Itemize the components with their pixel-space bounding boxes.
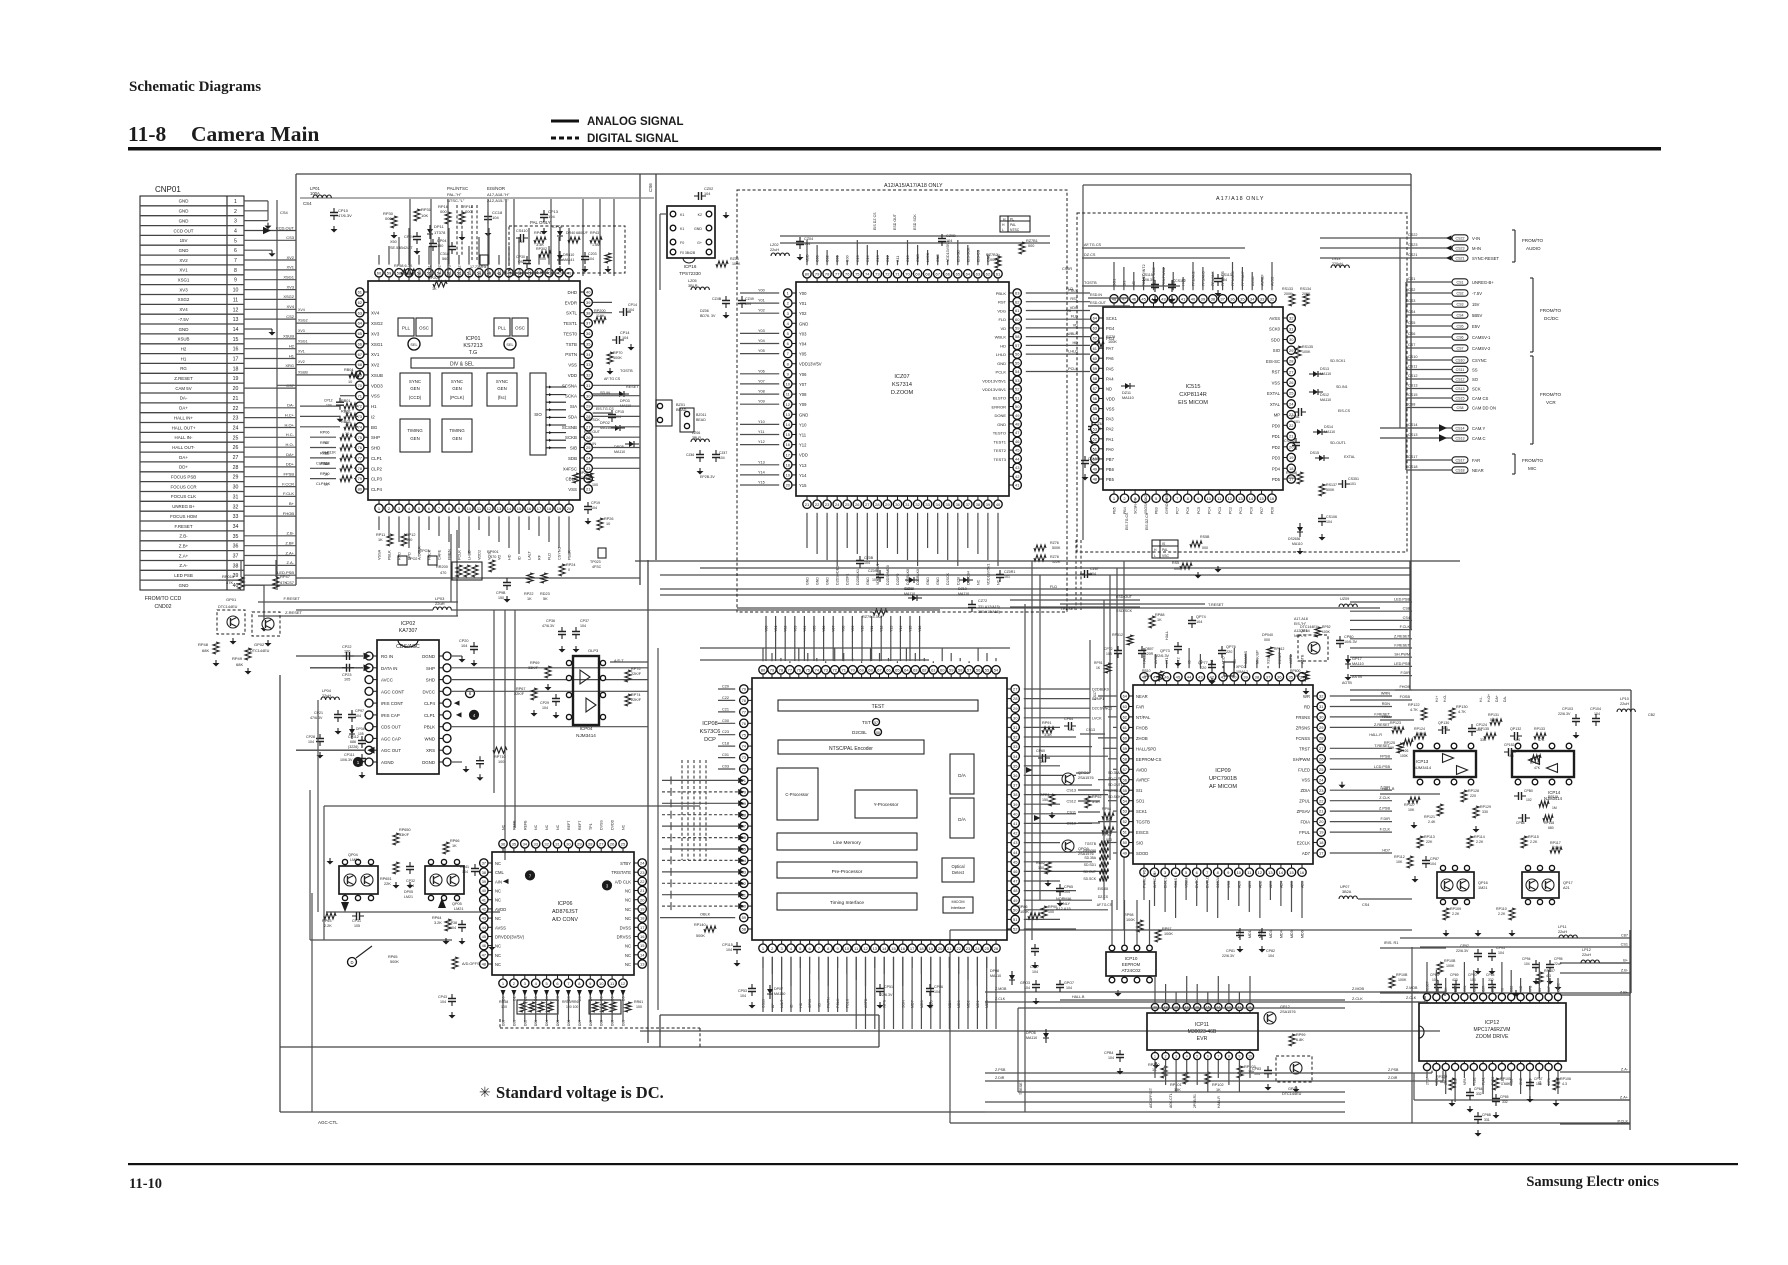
pin ICP12 bottom xyxy=(1545,1063,1552,1070)
svg-text:104: 104 xyxy=(1326,520,1332,524)
svg-text:SCSNA: SCSNA xyxy=(562,383,577,388)
wire edge stub Z.A- xyxy=(1560,1071,1630,1073)
transistor QP09 2SA1576 xyxy=(1062,840,1074,852)
capacitor CS105 104 xyxy=(1084,456,1086,468)
svg-text:104: 104 xyxy=(548,214,555,219)
capacitor CP41 104 xyxy=(474,864,476,876)
pin ICP12 top xyxy=(1517,993,1524,1000)
svg-text:GEN: GEN xyxy=(497,386,507,391)
svg-text:17.73MHz: 17.73MHz xyxy=(470,265,487,269)
diode DS15 MA110 xyxy=(1319,455,1324,461)
svg-text:CS21: CS21 xyxy=(1456,257,1465,261)
svg-text:19: 19 xyxy=(1319,830,1324,835)
svg-text:104: 104 xyxy=(542,706,548,710)
svg-text:50: 50 xyxy=(1123,840,1128,845)
resistor RP49 68K xyxy=(245,648,251,660)
svg-text:QP130: QP130 xyxy=(1438,721,1449,725)
svg-text:15: 15 xyxy=(233,337,239,343)
svg-text:21: 21 xyxy=(233,396,239,402)
svg-text:65: 65 xyxy=(358,331,363,336)
svg-text:75: 75 xyxy=(855,271,860,276)
wire ICP11 top pin up xyxy=(1175,992,1177,1003)
wire ICP06 data D1 down xyxy=(513,992,515,1022)
wire ICP08 bottom pin long xyxy=(874,957,876,1029)
resistor RP105 68K xyxy=(1493,1078,1499,1090)
svg-text:100K: 100K xyxy=(1126,918,1135,922)
svg-text:LM21: LM21 xyxy=(404,895,413,899)
svg-text:PB5: PB5 xyxy=(1106,477,1115,482)
svg-text:FOCUS PSB: FOCUS PSB xyxy=(171,475,196,480)
svg-text:SIA: SIA xyxy=(570,404,577,409)
svg-text:29: 29 xyxy=(586,404,591,409)
svg-text:SIO: SIO xyxy=(534,412,542,417)
svg-text:61: 61 xyxy=(358,290,363,295)
wire ICP08 bottom pin down xyxy=(846,957,848,974)
svg-text:FHOB: FHOB xyxy=(1399,685,1410,689)
wire ICP09 right WRN xyxy=(1330,695,1392,697)
wire ICP08 top pin up xyxy=(888,658,890,661)
wire olp3 vertical 1 xyxy=(493,610,495,793)
svg-text:PRST: PRST xyxy=(418,267,422,278)
svg-text:RP102: RP102 xyxy=(1212,1083,1224,1087)
resistor RP134 47K xyxy=(1531,755,1541,761)
capacitor CZ096 101 xyxy=(879,570,881,582)
svg-text:40: 40 xyxy=(1232,674,1237,679)
svg-text:D2DSHMD0: D2DSHMD0 xyxy=(886,565,890,585)
capacitor CZ64 104 xyxy=(1091,422,1093,434)
svg-text:12: 12 xyxy=(233,307,239,313)
svg-text:D: D xyxy=(350,960,353,965)
svg-text:GND: GND xyxy=(997,422,1006,427)
svg-text:GEN: GEN xyxy=(410,386,420,391)
svg-text:ANALOG SIGNAL: ANALOG SIGNAL xyxy=(587,116,683,128)
svg-text:59: 59 xyxy=(742,915,747,920)
wire HALL-R left list xyxy=(1078,789,1100,791)
svg-text:DR410: DR410 xyxy=(563,253,574,257)
resistor RS135 100K xyxy=(1295,346,1301,358)
svg-text:TPS72330: TPS72330 xyxy=(679,271,701,276)
svg-text:NTSC/PAL Encoder: NTSC/PAL Encoder xyxy=(829,746,873,752)
wire ICP08 top pin up xyxy=(923,658,925,661)
capacitor CP60b 103 xyxy=(1473,980,1475,992)
svg-text:16: 16 xyxy=(1300,870,1305,875)
svg-text:12: 12 xyxy=(487,506,492,511)
svg-text:QP76: QP76 xyxy=(1226,645,1236,649)
svg-text:CAM.Y: CAM.Y xyxy=(1472,426,1485,431)
wire ICZ07 top pin up xyxy=(917,245,919,265)
svg-text:EIS-SCK: EIS-SCK xyxy=(966,247,970,262)
wire ICZ07 bottom pin down xyxy=(977,513,979,554)
svg-text:RS5B: RS5B xyxy=(1200,535,1210,539)
svg-text:Detect: Detect xyxy=(952,870,965,875)
svg-text:A17.A18: A17.A18 xyxy=(1294,617,1308,621)
wire ICP02 pin DGND xyxy=(439,655,443,657)
svg-text:XPO2: XPO2 xyxy=(1236,665,1246,669)
svg-text:ICP12: ICP12 xyxy=(1485,1020,1500,1026)
wire ICP02 pin WND xyxy=(439,737,443,739)
svg-text:A/D CONV: A/D CONV xyxy=(552,917,578,923)
svg-text:18: 18 xyxy=(233,366,239,372)
wire ICP08 right stub xyxy=(1024,736,1076,738)
pin ICP11 bottom xyxy=(1194,1052,1201,1059)
svg-text:104: 104 xyxy=(1024,986,1030,990)
svg-text:35: 35 xyxy=(586,341,591,346)
svg-text:5: 5 xyxy=(1196,1055,1198,1059)
svg-text:39: 39 xyxy=(1243,674,1248,679)
svg-text:Z.B-: Z.B- xyxy=(1621,969,1629,973)
wire ICP01 bottom pin down xyxy=(438,516,440,536)
svg-text:D2CSVNC1: D2CSVNC1 xyxy=(1092,707,1112,711)
wire dcdc CS1 xyxy=(1406,281,1452,283)
svg-text:CDS OUT: CDS OUT xyxy=(381,725,401,730)
wire ICP08 bottom pin down xyxy=(920,957,922,974)
svg-text:TEST1: TEST1 xyxy=(563,321,577,326)
svg-text:CLP4: CLP4 xyxy=(371,487,383,492)
svg-text:TEST3: TEST3 xyxy=(994,457,1007,462)
svg-text:104: 104 xyxy=(934,990,940,994)
svg-text:GEN: GEN xyxy=(452,386,462,391)
resistor RP115 2.2K xyxy=(1521,836,1527,848)
svg-text:PA3: PA3 xyxy=(1106,417,1114,422)
svg-text:27: 27 xyxy=(586,424,591,429)
svg-text:RP117: RP117 xyxy=(1550,841,1561,845)
svg-text:C00: C00 xyxy=(722,719,729,723)
inductor LP03 22uH xyxy=(433,607,451,610)
svg-text:RP110: RP110 xyxy=(1496,907,1507,911)
svg-text:TPO2: TPO2 xyxy=(408,557,417,561)
svg-text:NC: NC xyxy=(495,916,501,921)
svg-text:RP129: RP129 xyxy=(1480,805,1491,809)
svg-text:WND: WND xyxy=(425,736,436,741)
svg-text:26: 26 xyxy=(610,841,615,846)
svg-text:30: 30 xyxy=(233,485,239,491)
svg-text:PBLK: PBLK xyxy=(388,550,392,560)
svg-text:SCKB: SCKB xyxy=(565,435,577,440)
svg-text:43: 43 xyxy=(1161,296,1166,301)
capacitor C318 560 xyxy=(451,242,453,254)
wire ICP08 bottom pin long xyxy=(986,957,988,1029)
svg-text:CS13: CS13 xyxy=(1408,384,1418,388)
svg-text:CS13: CS13 xyxy=(1456,437,1465,441)
svg-text:16: 16 xyxy=(640,934,645,939)
svg-text:NC: NC xyxy=(502,824,506,830)
svg-text:H1: H1 xyxy=(371,404,377,409)
wire CNP01 pin 31 net F.CLK xyxy=(244,495,296,497)
svg-text:27: 27 xyxy=(233,455,239,461)
wire ICZ07 top pin up xyxy=(876,250,878,265)
resistor RP86 100K xyxy=(1028,913,1040,919)
resistor RP63 2.2K xyxy=(324,913,336,919)
svg-text:DPO6: DPO6 xyxy=(1026,1031,1036,1035)
svg-text:103: 103 xyxy=(1106,652,1112,656)
op-amp ICP11 M30023-46B EVR body xyxy=(1147,1013,1258,1050)
svg-text:PC7: PC7 xyxy=(1176,507,1180,514)
svg-text:45: 45 xyxy=(1015,448,1020,453)
svg-text:24: 24 xyxy=(1289,402,1294,407)
svg-text:Y09: Y09 xyxy=(851,626,855,632)
wire ICP08 left C03 xyxy=(718,768,735,770)
wire ICP06 data D7 down xyxy=(578,992,580,1022)
svg-text:3.3K: 3.3K xyxy=(1044,733,1052,737)
svg-text:LALT: LALT xyxy=(528,551,532,560)
svg-text:RP07: RP07 xyxy=(320,441,330,445)
svg-text:A/D.OFFSET: A/D.OFFSET xyxy=(1149,1088,1153,1108)
ground rp70 xyxy=(630,344,632,347)
svg-text:SYNC: SYNC xyxy=(451,379,463,384)
svg-text:37: 37 xyxy=(482,861,487,866)
svg-text:3: 3 xyxy=(234,219,237,225)
arrow ICP08 left input xyxy=(738,869,744,875)
svg-text:19: 19 xyxy=(929,946,934,951)
wire ICP01 left input XV1 xyxy=(296,353,355,355)
wire vertical x660 bottom xyxy=(659,1015,661,1047)
svg-text:CP97: CP97 xyxy=(355,709,364,713)
svg-text:34: 34 xyxy=(1250,296,1255,301)
svg-text:Y09: Y09 xyxy=(758,400,765,404)
svg-text:SH.PWM: SH.PWM xyxy=(1394,653,1410,657)
pin ICP12 bottom xyxy=(1470,1063,1477,1070)
svg-text:40: 40 xyxy=(996,502,1001,507)
wire ICP06 data D8 down xyxy=(589,992,591,1022)
svg-text:26: 26 xyxy=(233,445,239,451)
svg-text:32: 32 xyxy=(233,504,239,510)
svg-text:EVR: EVR xyxy=(1197,1036,1208,1042)
svg-text:SD.SD1: SD.SD1 xyxy=(1084,863,1096,867)
svg-text:PC5: PC5 xyxy=(1197,507,1201,514)
wire ICP01 top pin up xyxy=(488,228,490,265)
resistor RP200 116K xyxy=(594,317,606,323)
svg-text:36: 36 xyxy=(233,544,239,550)
svg-text:XSG2: XSG2 xyxy=(283,294,294,299)
wire ICP02 pin PBLK xyxy=(439,726,443,728)
svg-text:19: 19 xyxy=(640,907,645,912)
svg-text:CP12: CP12 xyxy=(324,399,333,403)
svg-text:TEST: TEST xyxy=(872,704,885,710)
svg-text:D00: D00 xyxy=(611,1020,615,1026)
svg-text:(CCD): (CCD) xyxy=(409,395,422,400)
svg-text:H.C-: H.C- xyxy=(286,432,295,437)
svg-text:CLP1: CLP1 xyxy=(424,713,436,718)
svg-text:EIS.DZ.CS: EIS.DZ.CS xyxy=(1145,512,1149,530)
wire ICP01 top pin up xyxy=(448,228,450,265)
wire IC515 ESD.OUT xyxy=(1088,305,1130,307)
resistor RP123 5.6K xyxy=(1392,727,1404,733)
svg-text:RZ76: RZ76 xyxy=(1050,541,1059,545)
svg-text:100: 100 xyxy=(636,1005,642,1009)
svg-text:CS2: CS2 xyxy=(1457,292,1464,296)
svg-text:AVREF: AVREF xyxy=(1136,778,1150,783)
svg-text:1K: 1K xyxy=(432,287,437,291)
svg-text:DC/DC: DC/DC xyxy=(1544,316,1559,321)
svg-text:Y09: Y09 xyxy=(799,402,807,407)
svg-text:33: 33 xyxy=(233,514,239,520)
diode DP07 MA110 xyxy=(767,989,773,994)
inductor LP01 100A xyxy=(313,195,331,198)
svg-text:58: 58 xyxy=(1123,756,1128,761)
svg-text:HALL IN-: HALL IN- xyxy=(175,435,193,440)
svg-text:NC: NC xyxy=(625,962,631,967)
svg-text:RS5: RS5 xyxy=(1172,561,1179,565)
svg-text:CS4: CS4 xyxy=(1362,903,1369,907)
svg-text:64: 64 xyxy=(966,271,971,276)
resistor RZ78 122K xyxy=(1034,555,1046,561)
wire ICP01 bottom pin down xyxy=(428,516,430,530)
ball 4 clp1 xyxy=(470,710,479,719)
wire ICP01 top pin up xyxy=(528,228,530,265)
resistor RP121 2.4K xyxy=(1437,804,1443,816)
wire top bus horizontal y561 xyxy=(635,560,1460,562)
connector CNP01 body xyxy=(140,196,244,590)
wire ICP02 pin DGND xyxy=(439,761,443,763)
svg-text:RP651: RP651 xyxy=(380,877,392,881)
svg-text:VDD: VDD xyxy=(568,373,577,378)
svg-text:56: 56 xyxy=(976,667,981,672)
svg-text:RZ7B2: RZ7B2 xyxy=(986,253,998,257)
svg-text:104: 104 xyxy=(622,336,628,340)
inductor LS13 220uH xyxy=(1331,265,1349,268)
wire ICZ07 bottom pin down xyxy=(886,513,888,548)
svg-text:SYNC: SYNC xyxy=(496,379,508,384)
svg-text:EISCS: EISCS xyxy=(1136,830,1149,835)
svg-text:62: 62 xyxy=(922,667,927,672)
svg-text:RPP098: RPP098 xyxy=(1083,849,1096,853)
svg-text:39: 39 xyxy=(986,502,991,507)
svg-text:TST: TST xyxy=(862,720,871,725)
svg-text:CAM 5V: CAM 5V xyxy=(175,386,191,391)
wire edge stub Z.B+ xyxy=(1560,994,1630,996)
wire top cluster verticals xyxy=(409,199,411,276)
svg-text:DVCC: DVCC xyxy=(423,689,435,694)
svg-text:Y06: Y06 xyxy=(758,369,765,373)
svg-text:26: 26 xyxy=(994,946,999,951)
svg-text:SD.SCK1: SD.SCK1 xyxy=(1108,795,1123,799)
svg-text:RP118: RP118 xyxy=(1544,821,1554,825)
ground qp16 qp17 xyxy=(1445,930,1447,933)
svg-text:23: 23 xyxy=(640,870,645,875)
table H PAL L VSC bottom xyxy=(1152,540,1178,558)
svg-text:Y08: Y08 xyxy=(758,390,765,394)
capacitor CZ0R1 101 xyxy=(999,570,1001,582)
svg-text:DZ.CS: DZ.CS xyxy=(1084,253,1096,257)
svg-text:686: 686 xyxy=(350,740,356,744)
svg-text:LVCK: LVCK xyxy=(926,252,930,262)
title rule xyxy=(128,147,1661,151)
svg-text:DD+: DD+ xyxy=(286,462,295,467)
wire left frame vertical long xyxy=(279,675,281,1112)
wire CNP01 pin 7 net XV2 xyxy=(244,259,296,261)
svg-text:120R: 120R xyxy=(1145,652,1154,656)
svg-text:CZ096: CZ096 xyxy=(868,569,879,573)
svg-text:GEN: GEN xyxy=(410,436,420,441)
wire icp12 top pin wires xyxy=(1426,962,1428,993)
wire ICZ07 bottom pin down xyxy=(856,513,858,554)
svg-text:65: 65 xyxy=(895,667,900,672)
svg-text:30: 30 xyxy=(586,393,591,398)
svg-text:DZ11: DZ11 xyxy=(1122,391,1131,395)
svg-text:25: 25 xyxy=(845,502,850,507)
ground qp05 area xyxy=(445,938,447,941)
svg-text:100A: 100A xyxy=(310,191,320,196)
svg-text:KS7314: KS7314 xyxy=(892,382,912,388)
svg-text:DA+: DA+ xyxy=(286,452,295,457)
wire CNP01 pin 35 net Z.B- xyxy=(244,535,296,537)
svg-text:31: 31 xyxy=(1289,326,1294,331)
wire CS4 vertical bus xyxy=(276,200,278,590)
wire ICZ07 bottom pin down xyxy=(866,513,868,560)
svg-text:PA0: PA0 xyxy=(1106,447,1114,452)
capacitor CP87 104 xyxy=(1425,856,1427,868)
svg-text:30: 30 xyxy=(566,841,571,846)
svg-text:48: 48 xyxy=(1093,477,1098,482)
svg-text:104: 104 xyxy=(492,215,499,220)
wire right section frame vertical x1631 xyxy=(1630,690,1632,993)
svg-text:CP51: CP51 xyxy=(884,985,893,989)
svg-text:MD5: MD5 xyxy=(1290,930,1294,938)
wire FHOB xyxy=(1350,689,1412,691)
wire ICP08 right stub xyxy=(1024,832,1108,834)
svg-text:Schematic Diagrams: Schematic Diagrams xyxy=(129,79,261,95)
wire frame right vertical x1411 xyxy=(1410,174,1412,630)
svg-text:SXTL: SXTL xyxy=(566,311,578,316)
svg-text:EEPROM-CS: EEPROM-CS xyxy=(1136,757,1162,762)
svg-text:104: 104 xyxy=(628,308,634,312)
label T.RESET right xyxy=(1060,603,1205,605)
svg-text:ESD.OUT: ESD.OUT xyxy=(584,430,601,434)
wire ICP08 bottom pin long xyxy=(809,957,811,1012)
inductor LZ05 3BLR xyxy=(691,287,709,290)
svg-text:000: 000 xyxy=(1028,244,1034,248)
svg-text:FPUL: FPUL xyxy=(1299,830,1310,835)
inductor LP11 22uH xyxy=(1559,935,1577,938)
svg-text:RR200: RR200 xyxy=(436,565,448,569)
svg-text:QP16: QP16 xyxy=(1478,881,1488,885)
capacitor CP64 332 xyxy=(1469,1088,1471,1100)
svg-text:58: 58 xyxy=(1093,376,1098,381)
wire ICP08 top pin up xyxy=(968,661,970,663)
resistor network RR59 100 xyxy=(589,1000,621,1014)
svg-text:46: 46 xyxy=(1164,674,1169,679)
wire dcdc CS3 xyxy=(1406,303,1452,305)
wire icp02 bottom drop wires xyxy=(309,790,311,940)
svg-text:DONE: DONE xyxy=(994,413,1006,418)
capacitor CP82 104 xyxy=(1261,928,1263,940)
svg-text:CP103: CP103 xyxy=(1562,707,1573,711)
svg-text:42: 42 xyxy=(482,907,487,912)
svg-text:HALL.R: HALL.R xyxy=(1369,733,1382,737)
capacitor CC18 104 xyxy=(487,212,489,224)
wire ICP02 pin AGND xyxy=(373,761,377,763)
wire ICP08 top pin up xyxy=(950,653,952,661)
wire CNP01 pin 30 net F.CCR xyxy=(244,486,296,488)
svg-text:58: 58 xyxy=(876,731,880,735)
svg-text:F/LED: F/LED xyxy=(1298,767,1310,772)
svg-text:32: 32 xyxy=(1289,316,1294,321)
svg-text:CLP11K: CLP11K xyxy=(322,451,336,455)
svg-text:(fsc): (fsc) xyxy=(498,395,507,400)
svg-text:C21: C21 xyxy=(722,707,729,711)
wire signal CS4 xyxy=(1350,619,1412,621)
svg-text:RP47: RP47 xyxy=(280,574,291,579)
svg-text:TP023: TP023 xyxy=(590,560,601,564)
svg-text:P.CLK: P.CLK xyxy=(1618,1120,1629,1124)
capacitor CP98 150 xyxy=(506,578,508,590)
svg-text:RP26: RP26 xyxy=(604,517,614,521)
wire group audio CS21 xyxy=(1320,257,1452,259)
svg-text:PC2: PC2 xyxy=(1228,507,1232,514)
svg-text:REFT: REFT xyxy=(567,820,571,830)
wire ICP09 right Z.RESET xyxy=(1330,726,1392,728)
wire dcdc CS4 xyxy=(1406,314,1452,316)
